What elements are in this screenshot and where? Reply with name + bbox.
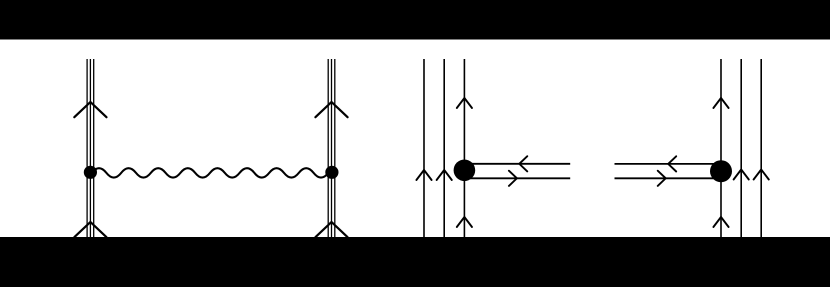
- middle diagram: vertical line 1 (x=424): [423, 59, 425, 237]
- right diagram: upper horizontal line: [615, 163, 722, 165]
- small up-arrow on middle line 2: [437, 170, 452, 180]
- middle diagram: big vertex blob: [454, 160, 476, 182]
- bottom black bar: [0, 237, 830, 287]
- big up-arrow on line A, lower: [74, 222, 106, 237]
- small up-arrow on middle line 3 below vertex: [457, 217, 472, 227]
- top black bar: [0, 0, 830, 40]
- photon wavy propagator between vertices: [92, 168, 329, 177]
- small up-arrow on right line 1 below vertex: [713, 217, 728, 227]
- vertex dot on line A: [84, 166, 97, 179]
- left diagram: triple fermion line A (x=90.4): [87, 59, 94, 237]
- small up-arrow on right line 2: [734, 170, 749, 180]
- left-pointing arrow on right upper horizontal line: [668, 156, 676, 171]
- big up-arrow on line A, upper: [74, 102, 106, 117]
- small up-arrow on right line 3: [754, 170, 769, 180]
- middle diagram: vertical line 2 (x=444.2): [443, 59, 445, 237]
- middle diagram: upper horizontal line: [464, 163, 570, 165]
- right diagram: big vertex blob: [710, 160, 732, 182]
- middle diagram: lower horizontal line: [464, 177, 570, 179]
- big up-arrow on line B, upper: [315, 102, 347, 117]
- big up-arrow on line B, lower: [315, 222, 347, 237]
- right diagram: vertical line 1 (x=721): [720, 59, 722, 237]
- small up-arrow on middle line 3 above vertex: [457, 98, 472, 108]
- small up-arrow on right line 1 above vertex: [713, 98, 728, 108]
- right diagram: lower horizontal line: [615, 177, 722, 179]
- middle diagram: vertical line 3 (x=464.4): [463, 59, 465, 237]
- left-pointing arrow on middle upper horizontal line: [519, 156, 527, 171]
- small up-arrow on middle line 1: [416, 170, 431, 180]
- right-pointing arrow on middle lower horizontal line: [509, 171, 517, 186]
- right-pointing arrow on right lower horizontal line: [658, 171, 666, 186]
- left diagram: triple fermion line B (x=331.5): [328, 59, 335, 237]
- vertex dot on line B: [325, 166, 338, 179]
- right diagram: vertical line 3 (x=761.2): [760, 59, 762, 237]
- right diagram: vertical line 2 (x=741.2): [740, 59, 742, 237]
